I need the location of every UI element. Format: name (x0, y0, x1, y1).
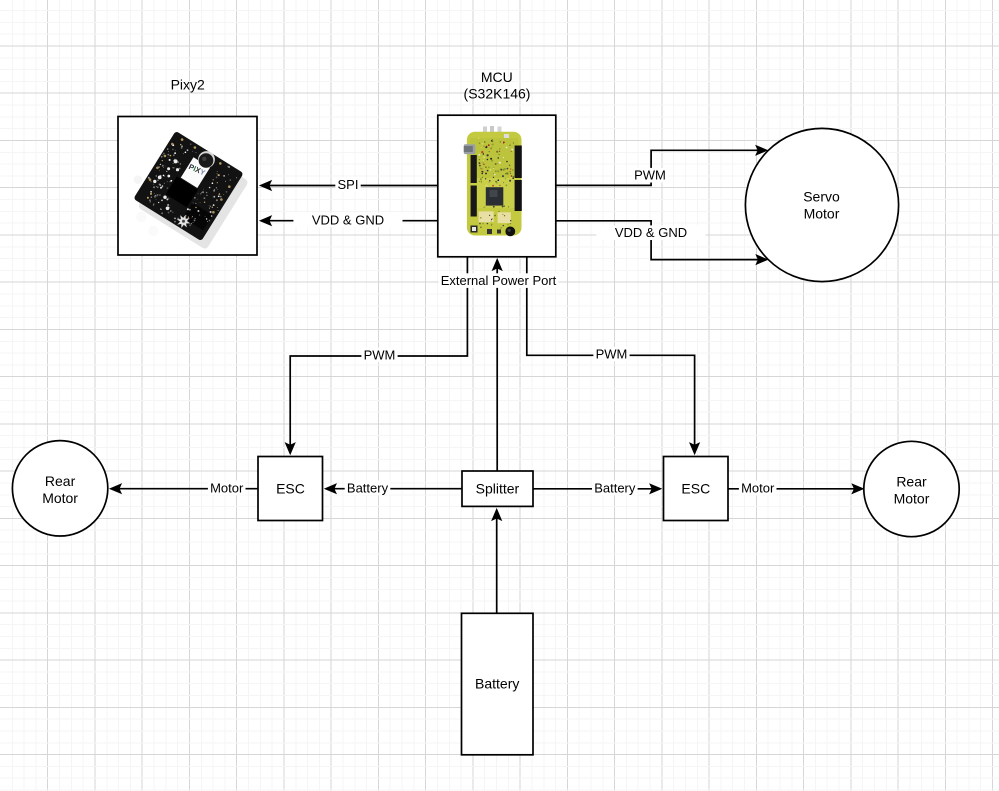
svg-text:Rear: Rear (45, 473, 76, 489)
svg-text:SPI: SPI (338, 177, 359, 192)
svg-text:Motor: Motor (210, 480, 244, 495)
svg-text:ESC: ESC (276, 480, 305, 496)
svg-text:Battery: Battery (475, 675, 519, 691)
svg-text:Motor: Motor (42, 490, 78, 506)
svg-text:Battery: Battery (594, 480, 636, 495)
svg-text:PWM: PWM (634, 168, 666, 183)
svg-text:VDD & GND: VDD & GND (615, 225, 687, 240)
svg-text:ESC: ESC (681, 480, 710, 496)
svg-text:VDD & GND: VDD & GND (312, 212, 384, 227)
svg-text:Motor: Motor (804, 206, 840, 222)
svg-text:Motor: Motor (894, 491, 930, 507)
svg-text:Pixy2: Pixy2 (171, 77, 205, 93)
svg-text:PWM: PWM (596, 347, 628, 362)
svg-text:(S32K146): (S32K146) (464, 85, 531, 101)
svg-text:Rear: Rear (896, 474, 927, 490)
svg-text:Servo: Servo (803, 189, 840, 205)
svg-text:External Power Port: External Power Port (441, 273, 557, 288)
svg-text:Battery: Battery (347, 480, 389, 495)
svg-text:Splitter: Splitter (476, 480, 520, 496)
svg-text:MCU: MCU (481, 69, 513, 85)
svg-text:PWM: PWM (364, 348, 396, 363)
svg-text:Motor: Motor (741, 480, 775, 495)
